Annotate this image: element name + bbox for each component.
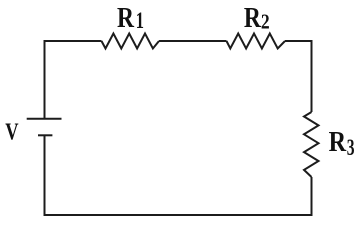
resistor R1 <box>102 34 160 49</box>
wire bottom: bottom-right corner to bottom-left corner <box>44 214 313 216</box>
resistor R3 <box>304 112 319 177</box>
svg-text:R: R <box>329 126 347 158</box>
svg-text:2: 2 <box>261 10 270 34</box>
label R1 <box>117 2 144 34</box>
svg-text:V: V <box>5 119 19 146</box>
svg-text:3: 3 <box>347 135 355 160</box>
wire right-bottom: R3 down to bottom-right corner <box>311 177 313 216</box>
svg-text:R: R <box>117 2 135 34</box>
wire top-right: R2 to right corner down to R3 <box>285 41 312 112</box>
resistor R2 <box>227 34 286 49</box>
battery V: long positive plate <box>27 118 62 120</box>
label R2 <box>244 2 270 34</box>
wire top-middle: R1 to R2 <box>159 40 227 42</box>
wire top-left: battery positive up and across to R1 <box>45 41 102 118</box>
wire left-bottom: bottom-left corner up to battery negative plate <box>44 136 46 216</box>
svg-text:1: 1 <box>136 8 144 33</box>
label R3 <box>329 126 355 160</box>
battery V: short negative plate <box>38 134 52 136</box>
svg-text:R: R <box>244 2 262 34</box>
